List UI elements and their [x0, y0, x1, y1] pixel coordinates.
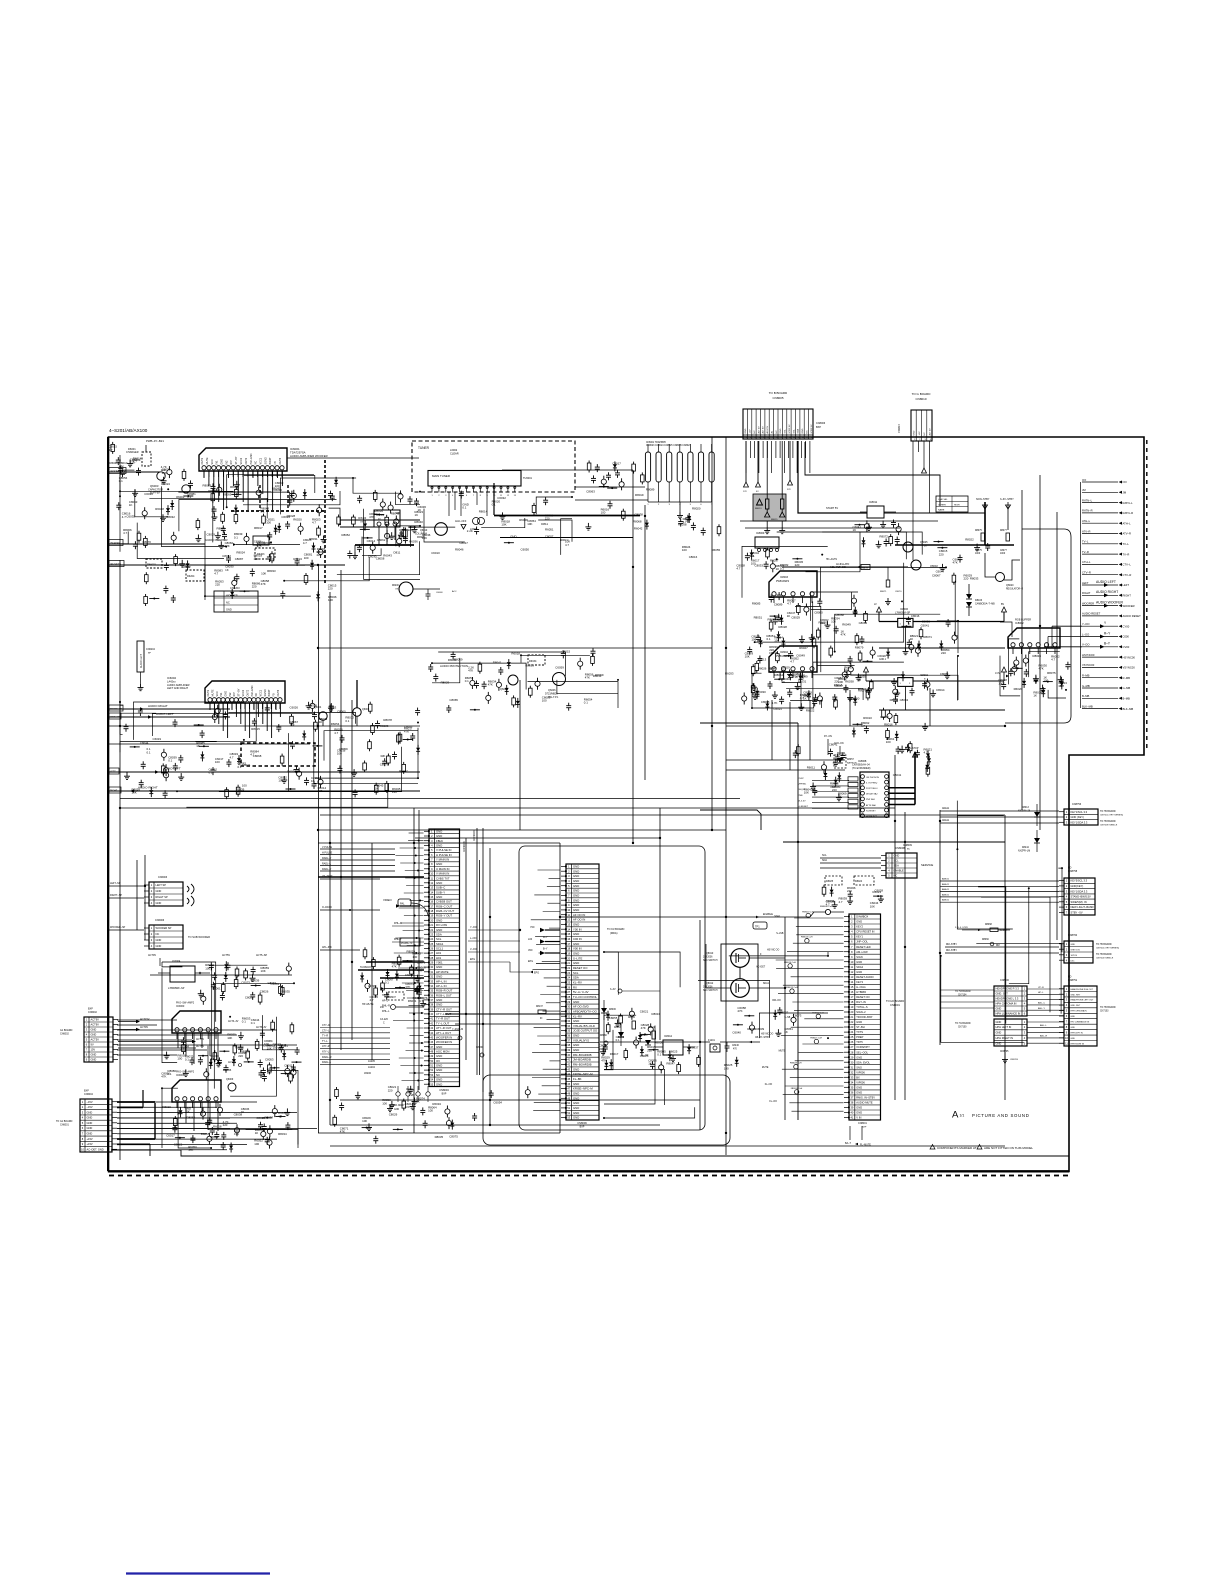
svg-text:47K: 47K: [161, 1075, 166, 1079]
tuner dashed enclosure: [412, 441, 575, 492]
component cluster wires right of IC6003: [227, 1017, 301, 1084]
svg-text:F1201: F1201: [708, 1039, 715, 1042]
svg-text:2.2K: 2.2K: [409, 1093, 415, 1097]
svg-text:7: 7: [431, 858, 433, 862]
label HP-MUTE: [362, 1003, 424, 1010]
svg-text:TY–R: TY–R: [322, 1035, 328, 1038]
svg-text:L–OO: L–OO: [1082, 632, 1089, 636]
svg-text:RADL–R: RADL–R: [322, 1056, 332, 1059]
svg-text:48: 48: [567, 1092, 570, 1096]
label ACT3p3: [228, 1020, 267, 1029]
diode pair D8106: [966, 594, 995, 607]
svg-text:52: 52: [567, 1111, 570, 1115]
svg-text:SGND: SGND: [264, 689, 267, 696]
svg-text:1: 1: [1066, 942, 1068, 946]
regulator IC8011: [826, 500, 896, 518]
svg-text:R8034: R8034: [278, 1132, 287, 1136]
svg-text:100: 100: [601, 511, 606, 515]
svg-text:PAL: PAL: [400, 902, 405, 905]
svg-text:C8062: C8062: [377, 538, 386, 542]
svg-text:33: 33: [567, 1019, 570, 1023]
svg-text:R8013: R8013: [755, 508, 762, 510]
horizontal bus y868 bold: [318, 876, 424, 878]
svg-text:IC6002: IC6002: [167, 676, 176, 680]
svg-text:ACTRO: ACTRO: [368, 985, 377, 988]
svg-text:C8029: C8029: [791, 615, 800, 619]
svg-text:H01: H01: [436, 951, 442, 955]
bold arrow B-Y into CN8009: [528, 948, 560, 956]
svg-text:5: 5: [82, 1121, 84, 1125]
svg-text:DV5P: DV5P: [798, 778, 804, 780]
svg-text:VCC: VCC: [211, 459, 214, 464]
svg-text:40: 40: [430, 1012, 433, 1016]
svg-text:12: 12: [567, 918, 570, 922]
svg-text:100: 100: [1043, 679, 1048, 683]
svg-text:C6044: C6044: [405, 973, 414, 977]
svg-text:CN8023 CN8024 CN8025 CN8026 CN: CN8023 CN8024 CN8025 CN8026 CN8027: [646, 445, 691, 447]
svg-text:MUTE: MUTE: [206, 457, 209, 464]
svg-text:GND: GND: [573, 869, 579, 873]
svg-text:AUDIO PROTECTION: AUDIO PROTECTION: [440, 664, 468, 668]
bold bus wire stby: [895, 544, 1014, 546]
wire woofer-op row: [108, 468, 160, 474]
svg-text:AUDIO RIGHT: AUDIO RIGHT: [138, 786, 158, 790]
svg-text:GND: GND: [996, 1031, 1002, 1035]
svg-text:32V: 32V: [787, 489, 791, 491]
svg-text:C8053: C8053: [265, 1058, 274, 1062]
svg-text:54: 54: [430, 1078, 433, 1082]
svg-text:TUNER: TUNER: [418, 446, 430, 450]
svg-text:26: 26: [430, 947, 433, 951]
svg-text:R6030: R6030: [757, 690, 766, 694]
svg-text:BATPION: BATPION: [847, 761, 857, 764]
svg-text:4: 4: [82, 1116, 84, 1120]
resistor R8137: [536, 1006, 546, 1020]
svg-text:R8072: R8072: [879, 534, 888, 538]
svg-text:10: 10: [81, 1147, 84, 1151]
svg-text:1: 1: [888, 854, 890, 858]
svg-text:CPU RESET IN: CPU RESET IN: [856, 930, 874, 934]
svg-text:3: 3: [568, 874, 570, 878]
svg-text:AUDIO AMPLIFIER: AUDIO AMPLIFIER: [167, 683, 190, 687]
svg-text:4.7: 4.7: [839, 900, 843, 904]
svg-text:SCL: SCL: [436, 937, 442, 941]
svg-text:ANE11: ANE11: [942, 819, 950, 822]
svg-text:CA 226: CA 226: [380, 1018, 389, 1021]
svg-text:4.7: 4.7: [370, 998, 374, 1002]
wire audio right bottom row: [108, 786, 420, 794]
off-page signal arrow list right edge: [1081, 478, 1142, 711]
svg-text:ATY–L: ATY–L: [322, 1051, 330, 1054]
svg-text:AF OO IN: AF OO IN: [573, 913, 585, 917]
svg-text:FB6002: FB6002: [147, 564, 156, 567]
vertical bus x477: [477, 828, 480, 1075]
svg-text:CN7509/ SEMI–E: CN7509/ SEMI–E: [1100, 824, 1118, 826]
svg-text:R8039: R8039: [374, 509, 383, 513]
svg-text:C8088: C8088: [761, 700, 770, 704]
wire CN8005 to IC8011: [798, 441, 867, 513]
svg-text:BXP: BXP: [84, 1090, 89, 1093]
svg-text:SDA: SDA: [894, 864, 900, 868]
horizontal bus y917 enable: [560, 906, 844, 918]
svg-text:D8057: D8057: [847, 759, 854, 761]
svg-text:1: 1: [568, 865, 570, 869]
svg-text:10K: 10K: [422, 536, 427, 540]
svg-text:V PULSE IN: V PULSE IN: [436, 848, 451, 852]
op-amp IC8003: [769, 571, 817, 603]
svg-text:1K: 1K: [418, 508, 422, 512]
svg-text:R8051: R8051: [754, 615, 763, 619]
svg-text:10POS: 10POS: [1071, 955, 1078, 957]
svg-text:FB8028 CuH: FB8028 CuH: [790, 1063, 802, 1065]
svg-text:23: 23: [850, 1025, 853, 1029]
connector CN8760: [1059, 934, 1119, 963]
svg-text:10K: 10K: [745, 655, 750, 659]
svg-text:R8047: R8047: [666, 1062, 675, 1066]
svg-text:TO H5 BOARD: TO H5 BOARD: [1100, 1006, 1116, 1009]
svg-text:RATN–L: RATN–L: [1123, 501, 1134, 505]
bus wire y726: [108, 725, 420, 727]
svg-text:Y00: Y00: [530, 926, 535, 929]
svg-text:TDOOR–BXP: TDOOR–BXP: [856, 1015, 872, 1019]
svg-text:AUDIO RESET: AUDIO RESET: [1082, 612, 1101, 616]
transistor Q6003: [148, 472, 165, 495]
svg-text:TOTAL–S: TOTAL–S: [856, 1005, 868, 1009]
svg-text:GND: GND: [573, 1048, 579, 1052]
svg-text:C8077: C8077: [1000, 550, 1007, 552]
svg-text:2: 2: [151, 889, 153, 893]
svg-text:TXTS: TXTS: [856, 1030, 863, 1034]
svg-text:R8035: R8035: [435, 1135, 444, 1139]
svg-text:CTY–L: CTY–L: [322, 1029, 330, 1032]
wires around Q8020: [969, 553, 1020, 616]
svg-text:3. 5V FREQ: 3. 5V FREQ: [866, 782, 878, 784]
svg-text:G–MB: G–MB: [1082, 684, 1090, 688]
svg-text:GND: GND: [436, 862, 442, 866]
extra verticals under IC6005: [178, 1102, 218, 1131]
svg-text:4: 4: [151, 944, 153, 948]
svg-text:47K: 47K: [404, 730, 409, 734]
wire fan-in left of CN8001: [756, 912, 843, 1112]
op-amp IC6002 audio amplifier LR: [167, 676, 285, 709]
op-amp IC8004: [769, 646, 817, 678]
svg-text:CF8001 TRAP/BPF: CF8001 TRAP/BPF: [646, 441, 667, 444]
svg-text:100: 100: [205, 966, 210, 970]
svg-text:0.1: 0.1: [657, 1053, 661, 1057]
wire jumble bottom left: [161, 962, 298, 1149]
svg-text:9: 9: [82, 1142, 84, 1146]
svg-text:HP–L IN: HP–L IN: [436, 984, 446, 988]
svg-text:55: 55: [430, 1082, 433, 1086]
svg-text:CVBS8 OUT: CVBS8 OUT: [436, 900, 452, 904]
svg-text:TO H5 BOARD: TO H5 BOARD: [1096, 953, 1112, 956]
svg-text:PKG–SW–AMP2: PKG–SW–AMP2: [176, 1002, 195, 1005]
svg-text:XONOOK: XONOOK: [463, 841, 466, 852]
svg-text:WOOFER IN: WOOFER IN: [436, 1040, 452, 1044]
svg-text:AF OO /5VD: AF OO /5VD: [573, 1005, 589, 1009]
component D6001 CHARGER: [126, 445, 151, 466]
vertical bus x414: [413, 808, 415, 1133]
svg-text:10K: 10K: [838, 680, 843, 684]
svg-text:3: 3: [1066, 820, 1068, 824]
svg-text:HPH LEFT IN: HPH LEFT IN: [996, 1025, 1012, 1029]
svg-text:51: 51: [430, 1064, 433, 1068]
wire fan-in left of CN8009: [531, 870, 561, 1111]
svg-text:KRISE–NPY–M: KRISE–NPY–M: [573, 1072, 593, 1076]
svg-text:Y–OO: Y–OO: [470, 926, 477, 929]
svg-text:10: 10: [850, 960, 853, 964]
svg-text:IC8009: IC8009: [756, 531, 765, 535]
svg-text:0.1: 0.1: [209, 771, 213, 775]
svg-text:100: 100: [254, 1142, 259, 1146]
wire jumble tuner: [362, 496, 573, 555]
svg-text:SUB–Y: SUB–Y: [436, 890, 445, 894]
wire bundle under IC6001 pins: [204, 471, 282, 510]
svg-text:C8087: C8087: [235, 557, 244, 561]
connector CN8758: [1059, 867, 1095, 915]
svg-text:R8017: R8017: [254, 526, 263, 530]
wire jumble audio left: [119, 455, 341, 559]
svg-text:R8071: R8071: [923, 635, 932, 639]
svg-text:1: 1: [86, 1018, 88, 1022]
connector CN8008 service: [881, 846, 933, 878]
svg-text:HEADPHONE L 3.3: HEADPHONE L 3.3: [996, 997, 1019, 1001]
svg-text:CN6002: CN6002: [60, 1032, 69, 1035]
svg-text:1K: 1K: [129, 503, 133, 507]
svg-text:FB: FB: [273, 693, 276, 697]
svg-text:ACD–ON: ACD–ON: [834, 742, 844, 745]
svg-text:START 5V: START 5V: [826, 506, 838, 510]
svg-text:2: 2: [1024, 992, 1026, 996]
svg-text:RHL–C: RHL–C: [394, 922, 402, 925]
net label V-OO: [468, 948, 520, 952]
svg-text:47K: 47K: [841, 632, 846, 636]
diode D6034: [528, 655, 545, 665]
svg-text:HSYNC OO: HSYNC OO: [761, 1034, 773, 1036]
svg-text:36: 36: [430, 993, 433, 997]
svg-text:9V: 9V: [91, 1043, 94, 1047]
component cluster caps around IC8006: [848, 611, 958, 664]
svg-text:C8083: C8083: [940, 672, 949, 676]
wire act9v row: [150, 974, 292, 976]
svg-text:TO H5 BOARD: TO H5 BOARD: [1100, 810, 1116, 813]
vertical bus x785: [784, 917, 786, 1120]
svg-text:DIAMBOX: DIAMBOX: [856, 915, 868, 919]
svg-text:GND: GND: [573, 1106, 579, 1110]
svg-text:CTV–R: CTV–R: [1082, 571, 1091, 575]
svg-text:2: 2: [1024, 1025, 1026, 1029]
svg-text:GND: GND: [573, 884, 579, 888]
svg-text:HPH CHROMA IN: HPH CHROMA IN: [1071, 1010, 1088, 1013]
diode D8047: [641, 1035, 651, 1057]
svg-text:R8034: R8034: [652, 1012, 661, 1016]
svg-text:BXP: BXP: [580, 1125, 585, 1128]
svg-text:GND: GND: [573, 1116, 579, 1120]
svg-text:220: 220: [223, 1123, 228, 1127]
svg-text:19: 19: [430, 914, 433, 918]
svg-text:R8019: R8019: [635, 493, 644, 497]
svg-text:12: 12: [507, 495, 510, 497]
svg-text:R8075: R8075: [975, 530, 982, 532]
svg-text:TV–L: TV–L: [1082, 540, 1089, 544]
svg-text:220: 220: [252, 584, 257, 588]
svg-text:R6031: R6031: [408, 999, 417, 1003]
label 5.5V right of CN8009: [610, 988, 660, 993]
tuner pin stubs: [431, 486, 517, 497]
horizontal bus y1100: [340, 1099, 700, 1101]
svg-text:18: 18: [430, 909, 433, 913]
svg-text:25: 25: [567, 980, 570, 984]
svg-text:8: 8: [1066, 1025, 1068, 1029]
label ACT9V: [148, 954, 160, 966]
svg-text:CN8005: CN8005: [772, 396, 783, 400]
bold arrow Y into CN8009: [530, 926, 560, 932]
svg-text:GND: GND: [573, 874, 579, 878]
svg-text:GND: GND: [856, 1111, 862, 1115]
svg-text:51: 51: [567, 1106, 570, 1110]
svg-text:D811: D811: [394, 551, 401, 555]
inner frame line right mid: [700, 723, 798, 1120]
rotated net name XONOOK 1: [463, 841, 466, 852]
horizontal bus y1014: [445, 1013, 600, 1015]
svg-text:23: 23: [567, 971, 570, 975]
svg-text:CTV–R: CTV–R: [1123, 573, 1132, 577]
svg-text:C: C: [383, 1022, 385, 1024]
mid right verticals: [772, 688, 930, 770]
labels JR206 JR207: [390, 1104, 405, 1111]
svg-text:47K: 47K: [261, 582, 266, 586]
svg-text:HP–L: HP–L: [382, 999, 389, 1002]
svg-text:TO H1 BOARD: TO H1 BOARD: [955, 1022, 971, 1025]
svg-text:FB8031 CuH: FB8031 CuH: [791, 1088, 803, 1090]
wire beeper row: [108, 540, 205, 546]
svg-text:AC–DET: AC–DET: [756, 965, 766, 968]
net label EPG: [468, 958, 539, 975]
svg-text:27: 27: [567, 990, 570, 994]
transistor Q6008: [353, 680, 370, 726]
svg-text:GND: GND: [856, 970, 862, 974]
svg-text:VCC1: VCC1: [260, 457, 263, 464]
vertical bus x419: [418, 810, 420, 1090]
component cluster decoupling caps under IC6001: [203, 477, 341, 564]
label ACT-N: [228, 1061, 242, 1067]
rounded channel top right: [1005, 529, 1071, 723]
svg-text:CN8004: CN8004: [439, 1088, 449, 1092]
svg-text:AUDIO RIGHT: AUDIO RIGHT: [1096, 590, 1118, 594]
svg-text:AM–LOW: AM–LOW: [856, 950, 868, 954]
component cluster components left of CN8004 mid: [360, 947, 428, 1006]
svg-text:100: 100: [831, 620, 836, 624]
svg-text:GND: GND: [573, 952, 579, 956]
svg-text:Q6003: Q6003: [150, 484, 159, 488]
wires from CN8005 pins: [746, 441, 810, 534]
svg-text:GND: GND: [436, 829, 442, 833]
svg-text:RGB–R OUT: RGB–R OUT: [436, 989, 453, 993]
svg-text:1K: 1K: [803, 697, 807, 701]
svg-text:GND: GND: [436, 1045, 442, 1049]
svg-text:41: 41: [850, 1116, 853, 1120]
svg-text:29: 29: [430, 961, 433, 965]
svg-text:NAME: NAME: [938, 509, 945, 512]
wire jumble bottom right: [940, 801, 1063, 1043]
svg-text:R8071: R8071: [880, 591, 887, 593]
svg-text:27: 27: [850, 1045, 853, 1049]
resistor R8141: [648, 1027, 656, 1039]
transistor Q6002: [176, 485, 190, 499]
svg-text:OUT3: OUT3: [279, 457, 282, 464]
svg-text:GND: GND: [156, 944, 162, 948]
svg-text:6: 6: [568, 889, 570, 893]
svg-text:GND: GND: [573, 1082, 579, 1086]
svg-text:3: 3: [1066, 889, 1068, 893]
bottom parts under CN8004: [396, 1086, 430, 1102]
svg-text:C8180: C8180: [476, 1047, 483, 1049]
svg-text:GND: GND: [87, 1126, 93, 1130]
horizontal bus y726: [726, 725, 1005, 727]
svg-text:9: 9: [1066, 1031, 1068, 1035]
svg-text:BD: BD: [1068, 976, 1072, 979]
svg-text:TY–L OUT: TY–L OUT: [436, 1021, 450, 1025]
svg-text:C6206: C6206: [254, 541, 262, 544]
svg-text:GND: GND: [226, 608, 232, 612]
bold arrows from CN6002: [118, 1018, 204, 1048]
svg-text:4.7: 4.7: [736, 567, 740, 571]
svg-text:GND: GND: [780, 428, 782, 433]
svg-text:IN2: IN2: [229, 692, 232, 697]
svg-text:IN1: IN1: [216, 460, 219, 465]
svg-text:47K: 47K: [488, 683, 493, 687]
svg-text:AUDIO LEFT: AUDIO LEFT: [1096, 580, 1116, 584]
svg-text:2: 2: [1066, 815, 1068, 819]
connector CN8009 TO K3 BOARD: [561, 864, 625, 1128]
label EPG2: [528, 960, 560, 964]
svg-text:1K: 1K: [787, 614, 791, 618]
svg-text:GND: GND: [573, 1096, 579, 1100]
svg-text:R8083: R8083: [768, 617, 777, 621]
svg-text:ACT9V: ACT9V: [91, 1023, 100, 1027]
svg-text:V–OO: V–OO: [1082, 643, 1089, 647]
svg-text:CN8006: CN8006: [816, 422, 826, 425]
svg-text:KL–RV: KL–RV: [573, 980, 582, 984]
frame bottom dashed line: [109, 1175, 1068, 1177]
svg-text:D8016: D8016: [614, 1027, 621, 1029]
svg-text:GND: GND: [436, 998, 442, 1002]
svg-text:3–3V–STBY: 3–3V–STBY: [1000, 498, 1014, 501]
horizontal bus y770: [726, 769, 845, 771]
svg-text:GND: GND: [573, 898, 579, 902]
svg-text:GND: GND: [221, 459, 224, 465]
svg-text:38: 38: [567, 1043, 570, 1047]
svg-text:220: 220: [317, 553, 322, 557]
svg-text:0.1: 0.1: [168, 1072, 172, 1076]
extra top wires 2: [575, 487, 648, 500]
svg-text:18: 18: [850, 1000, 853, 1004]
svg-text:SEL–OOL: SEL–OOL: [856, 1050, 868, 1054]
wire IC8011 output: [884, 513, 985, 529]
horizontal bus y808: [120, 807, 895, 809]
svg-text:28: 28: [850, 1050, 853, 1054]
component cluster parts below CN8004: [387, 1085, 441, 1115]
svg-text:HPH LUMINANCE IN: HPH LUMINANCE IN: [996, 1012, 1021, 1016]
svg-text:U MAIN IN: U MAIN IN: [436, 867, 449, 871]
svg-text:R6017: R6017: [610, 1052, 619, 1056]
svg-text:9: 9: [568, 903, 570, 907]
svg-text:0.1: 0.1: [251, 1021, 255, 1025]
wire bundle under IC6002 pins: [210, 703, 280, 738]
sheet title A 1/3 PICTURE AND SOUND: [952, 1110, 1030, 1121]
svg-text:100: 100: [177, 1057, 182, 1061]
bold wire h01: [380, 977, 424, 979]
